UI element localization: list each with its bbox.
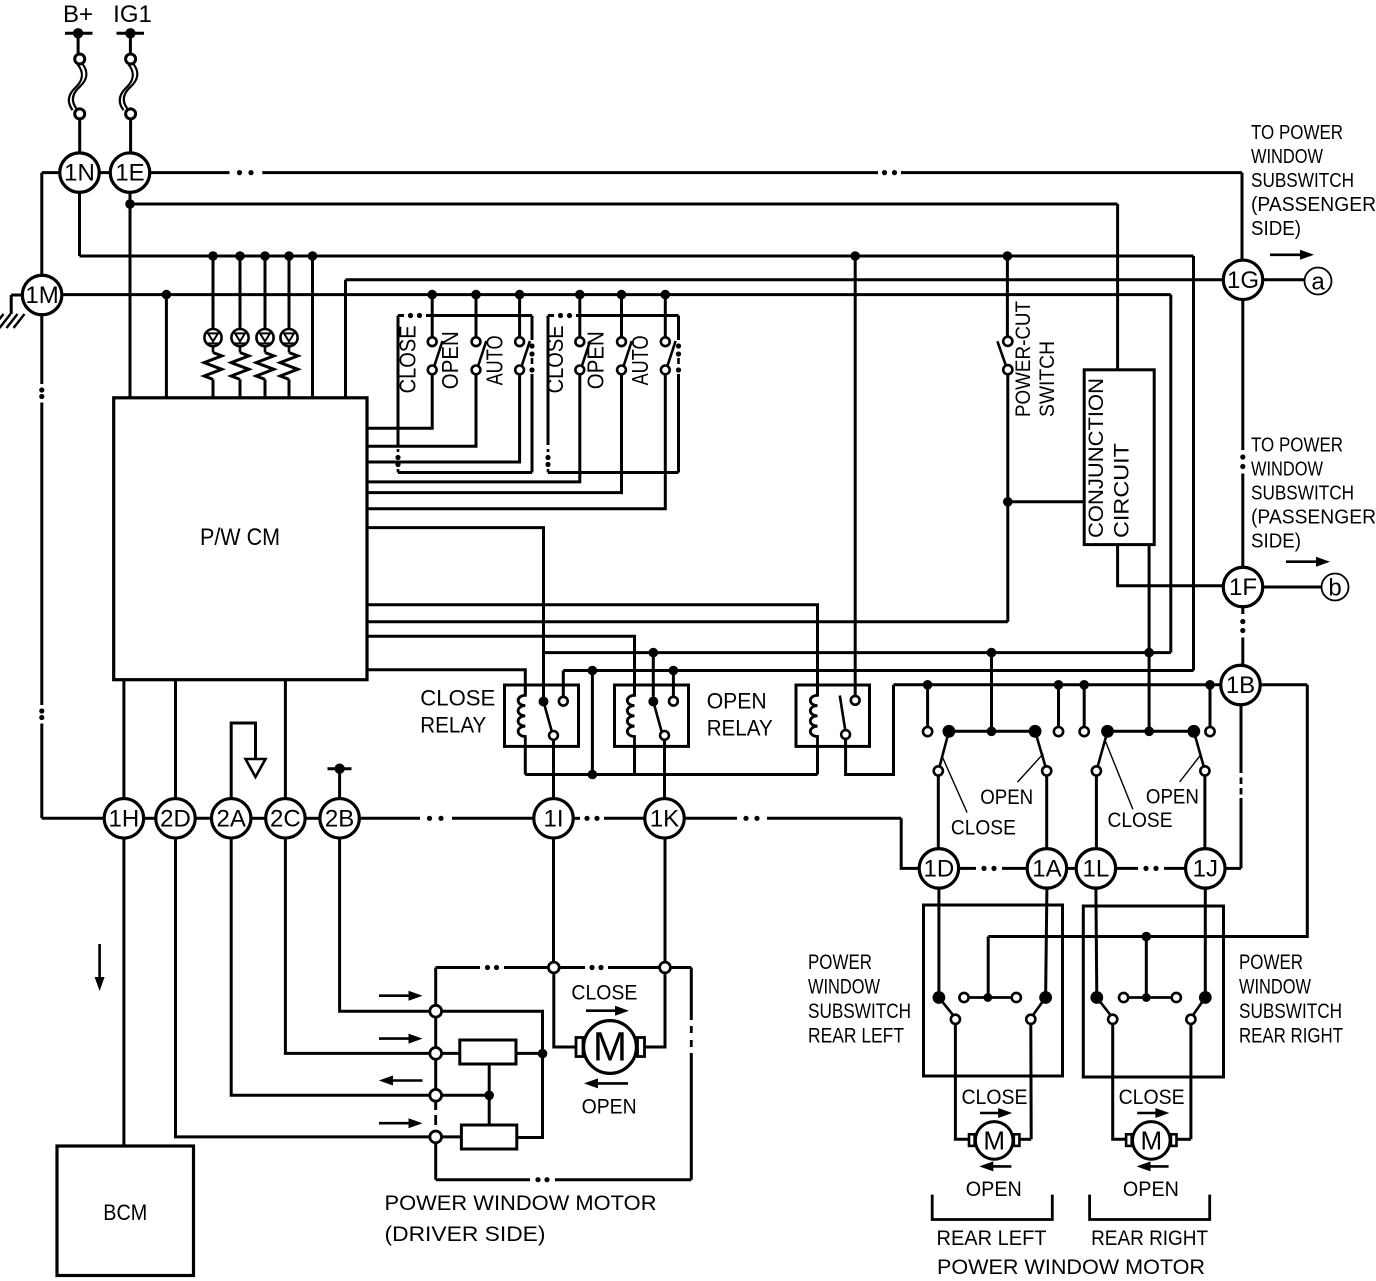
pin4 wire to rect2 [442, 1135, 462, 1138]
svg-text:OPEN: OPEN [980, 786, 1033, 809]
svg-text:POWER WINDOW MOTOR: POWER WINDOW MOTOR [385, 1192, 657, 1215]
junction ground rail / P-W CM pin [162, 290, 172, 300]
svg-text:1A: 1A [1032, 855, 1061, 882]
connector 2B [320, 799, 360, 839]
blade close (rear-right) [1098, 731, 1108, 766]
pin wire y=604.7 to relay3 coil [367, 605, 818, 696]
blade open (rear-right) [1194, 731, 1204, 766]
junction ground rail / switch x=476 [471, 290, 481, 300]
switch group 2 box (dash-dot portions) [548, 314, 554, 317]
relay3 output to 1B rail [846, 685, 894, 775]
relay1 common contact [539, 697, 549, 707]
svg-text:M: M [593, 1024, 627, 1070]
relay3 (rear power) box [796, 685, 870, 746]
pointer OPEN (rear-right) [1180, 755, 1201, 782]
junction ground rail / switch x=665.3 [661, 290, 671, 300]
power-cut switch [1006, 256, 1009, 337]
svg-text:REAR RIGHT: REAR RIGHT [1239, 1025, 1343, 1048]
rect1-rect2 vertical [488, 1064, 491, 1125]
rear-right motor wires [1113, 1024, 1126, 1139]
arrow close (rear-left) [980, 1112, 1001, 1115]
svg-text:REAR LEFT: REAR LEFT [937, 1227, 1047, 1250]
arrow in pin2 [379, 1037, 412, 1040]
wire 1M to 1H (chain) [40, 315, 43, 384]
pivot close (rear-right pair) [1101, 725, 1114, 738]
pivot close (rear-left pair) [943, 725, 956, 738]
junction power-cut / conjunction input [1003, 497, 1013, 507]
row wire 1I to 1K (chain) [573, 817, 580, 820]
ground wire from 1M [11, 294, 22, 297]
svg-text:CLOSE: CLOSE [951, 817, 1016, 840]
wire to conjunction circuit (y=204) [130, 203, 1118, 206]
svg-text:2A: 2A [217, 805, 246, 832]
row wire 2B to 1I (chain) [359, 817, 420, 820]
resistor R at x=213 [212, 346, 215, 352]
wire P/W CM to 1H [122, 680, 125, 799]
relay3 coil bottom [816, 746, 819, 774]
svg-text:b: b [1328, 575, 1341, 602]
IG1 rail to 1G [150, 171, 230, 174]
motor M rear left [969, 1134, 975, 1146]
motor box pin from 2D [430, 1131, 442, 1143]
svg-text:2D: 2D [160, 805, 191, 832]
arrow to passenger side (mid) [1286, 560, 1319, 563]
svg-text:1L: 1L [1083, 855, 1110, 882]
relay3 NO contact [851, 696, 860, 705]
rear-right pivot close [1090, 991, 1103, 1004]
motor left wire [554, 973, 576, 1047]
pin3 wire [442, 1094, 490, 1097]
connector 1D [919, 849, 959, 889]
svg-text:OPEN: OPEN [1146, 786, 1199, 809]
svg-text:OPEN: OPEN [707, 689, 767, 714]
svg-text:SUBSWITCH: SUBSWITCH [1239, 1000, 1342, 1023]
junction 1E / conjunction line [125, 199, 135, 209]
wire 1J into box [1204, 888, 1207, 997]
svg-text:1I: 1I [543, 805, 563, 832]
svg-text:TO POWER: TO POWER [1251, 435, 1343, 457]
pointer CLOSE (rear-left) [942, 756, 967, 813]
wire P/W CM to 2D [174, 680, 177, 799]
wire AUTO2 to P/W CM [367, 375, 665, 509]
arrow open (rear-left) [990, 1165, 1011, 1168]
wire to 1A [1045, 776, 1048, 849]
jog symbol above 2A [231, 723, 255, 799]
svg-text:RELAY: RELAY [707, 716, 773, 741]
pin wire y=527.6 to relay1 common [367, 528, 544, 702]
LED D at x=240 [239, 256, 242, 329]
svg-text:(DRIVER SIDE): (DRIVER SIDE) [385, 1223, 546, 1246]
svg-text:OPEN: OPEN [437, 331, 463, 389]
connector 2C [266, 799, 306, 839]
wire rail to relay2 common [652, 653, 655, 697]
wire OPEN2 to P/W CM [367, 375, 622, 493]
rear-left pivot open [1039, 991, 1052, 1004]
pin wire y=669.8 to relay1 coil [367, 670, 525, 696]
LED D at x=289 [288, 256, 291, 329]
relay3 coil [810, 685, 817, 746]
svg-text:SIDE): SIDE) [1251, 531, 1301, 553]
driver motor M [576, 1038, 583, 1057]
svg-text:SWITCH: SWITCH [1036, 341, 1059, 417]
T-bar terminal above 2B [328, 767, 352, 770]
pointer CLOSE (rear-right) [1106, 741, 1133, 809]
motor box contact from 1K [660, 962, 671, 973]
relay1 coil bottom [524, 746, 527, 774]
junction B+ / relay3 contact [850, 251, 860, 261]
motor box pin from 2C [430, 1048, 442, 1060]
wire to conjunction left [1008, 500, 1084, 503]
junction segB / coil-supply riser [588, 666, 598, 676]
svg-text:OPEN: OPEN [966, 1178, 1022, 1201]
wire B+ to relay3 NO [854, 256, 857, 696]
svg-text:CLOSE: CLOSE [1108, 809, 1173, 832]
wire B+ tap to P/W CM [311, 256, 314, 398]
bracket rear-right [1090, 1195, 1210, 1220]
ground riser to relay common rail [1169, 295, 1172, 653]
relay1 switch output contact [549, 731, 558, 740]
conjunction output to rear pair rail [1148, 545, 1151, 653]
conjunction circuit box [1084, 370, 1154, 545]
switch OPEN group at x=621.5 [620, 295, 623, 338]
rear-left blade close [939, 998, 954, 1016]
rear-right pivot open [1199, 991, 1212, 1004]
motor box pin from 2B [430, 1005, 442, 1017]
svg-text:1G: 1G [1227, 267, 1259, 294]
B+ riser right to relay contacts [1192, 256, 1195, 671]
blade open (rear-left) [1035, 731, 1045, 766]
blade close (rear-left) [940, 731, 949, 766]
svg-text:SIDE): SIDE) [1251, 218, 1301, 240]
circle a [1305, 268, 1332, 295]
svg-text:CLOSE: CLOSE [542, 325, 568, 393]
rear-left motor wires [955, 1024, 969, 1139]
bracket rear-left [932, 1195, 1052, 1220]
svg-text:CLOSE: CLOSE [571, 982, 637, 1005]
wire 1E to P/W CM [129, 192, 132, 397]
svg-text:AUTO: AUTO [482, 335, 508, 385]
junction segB / relay2 NO [669, 666, 679, 676]
1B wire down right side [988, 685, 1307, 937]
wire 2B to motor pin1 [340, 838, 430, 1011]
relay2 switch output contact [660, 731, 669, 740]
wire 1G line tap to P/W CM [344, 280, 347, 398]
wire 1D into box [937, 888, 940, 997]
svg-text:1F: 1F [1229, 574, 1257, 601]
connector 2A [211, 799, 251, 839]
motor M rear right [1126, 1134, 1132, 1146]
svg-text:OPEN: OPEN [582, 331, 608, 389]
stub 1B rail to pair contacts [926, 685, 929, 727]
wire 2A to motor pin3 [231, 838, 430, 1095]
rect1 right to junction [516, 1052, 543, 1055]
connector 1G [1223, 260, 1263, 300]
box P/W CM [114, 398, 367, 680]
ground symbol [14, 314, 25, 328]
svg-text:WINDOW: WINDOW [1251, 459, 1323, 481]
motor box contact from 1I [548, 962, 559, 973]
arrow to passenger side (top) [1270, 254, 1303, 257]
pin wire y=621.7 to power-cut [367, 620, 1008, 623]
connector 2D [156, 799, 196, 839]
rear-left blade open [1033, 998, 1046, 1016]
wire 1A into box [1046, 888, 1047, 997]
connector 1J [1186, 849, 1226, 889]
rear-right pair: center feed [1148, 653, 1151, 732]
wire 2D to motor pin4 [176, 838, 430, 1137]
svg-text:SUBSWITCH: SUBSWITCH [1251, 483, 1354, 505]
relay OPEN relay (middle) box [615, 685, 689, 746]
wire 1N to B+ rail [78, 192, 81, 256]
box POWER WINDOW MOTOR DRIVER SIDE (chain border) [436, 966, 480, 969]
wire P/W CM to 2C [284, 680, 287, 799]
riser segB to coil rail [591, 671, 594, 775]
wire 1G to a [1263, 278, 1305, 281]
svg-text:OPEN: OPEN [582, 1096, 637, 1119]
resistor R at x=240 [239, 346, 242, 352]
svg-text:CONJUNCTION: CONJUNCTION [1085, 378, 1108, 538]
chain 1D-1A [959, 867, 976, 870]
wire 1N-1E [99, 171, 110, 174]
wire P/W CM pin x=166.4 [165, 295, 168, 398]
arrow in pin1 [379, 994, 412, 997]
svg-text:CLOSE: CLOSE [394, 325, 420, 393]
row wire segments between connectors [144, 817, 156, 820]
wire CLOSE2 to P/W CM [367, 375, 580, 482]
rear-left pair: center feed [990, 653, 993, 732]
rear-right pair bar [1108, 730, 1194, 733]
relay common / ground rail y=652.6 [544, 651, 1171, 654]
switch AUTO group at x=665.3 [664, 295, 667, 338]
1B rail y=684.8 [894, 683, 1221, 686]
svg-text:CLOSE: CLOSE [420, 686, 495, 711]
relay2 blade [653, 702, 661, 732]
svg-text:(PASSENGER: (PASSENGER [1251, 194, 1376, 216]
svg-text:1M: 1M [25, 282, 58, 309]
pivot open (rear-left pair) [1029, 725, 1042, 738]
connector 1M [22, 275, 62, 315]
connector 1I [534, 799, 574, 839]
rear-right blade close [1097, 998, 1111, 1016]
svg-text:AUTO: AUTO [627, 335, 653, 385]
motor box pin from 2A [430, 1089, 442, 1101]
svg-text:M: M [983, 1126, 1005, 1156]
connector 1N [60, 153, 100, 193]
relay2 coil [627, 685, 634, 746]
svg-text:RELAY: RELAY [420, 713, 486, 738]
svg-text:a: a [1311, 269, 1325, 296]
svg-text:B+: B+ [63, 1, 93, 28]
chain 1L-1J [1116, 867, 1138, 870]
connector 1F [1223, 567, 1263, 607]
rect1 left to pin2 [442, 1052, 460, 1055]
segment B+ to relay NO contacts y=670.5 [563, 669, 1193, 672]
svg-text:WINDOW: WINDOW [1239, 976, 1311, 999]
rear-left pivot close [933, 991, 946, 1004]
wire AUTO1 to P/W CM [367, 375, 520, 463]
connector 1K [645, 799, 685, 839]
chain 1F to 1B [1241, 607, 1244, 614]
wire 1N left / down to 1M [42, 171, 60, 174]
breaker rect 1 [460, 1040, 516, 1064]
svg-text:1E: 1E [115, 160, 144, 187]
B+ rail [80, 255, 1194, 258]
svg-text:WINDOW: WINDOW [808, 976, 880, 999]
switch CLOSE group at x=579.8 [578, 295, 581, 338]
junction B+ / power-cut switch [1003, 251, 1013, 261]
svg-text:2B: 2B [325, 805, 354, 832]
wire 1J to 1B riser (chain) [1225, 867, 1241, 870]
junction rail/rear-right pair center [1144, 648, 1154, 658]
ground rail from 1M [62, 293, 1171, 296]
wire 1H to BCM [122, 838, 125, 1146]
arrow in pin4 [379, 1122, 412, 1125]
fuse F1 (B+) [65, 32, 93, 35]
conjunction output to 1F [1118, 545, 1224, 586]
connector 1A [1027, 849, 1067, 889]
svg-text:1B: 1B [1226, 672, 1255, 699]
junction ground rail / switch x=579.8 [575, 290, 585, 300]
svg-text:SUBSWITCH: SUBSWITCH [1251, 170, 1354, 192]
connector 1B [1221, 665, 1261, 705]
arrow out pin3 [390, 1079, 423, 1082]
wire 1A-1L [1067, 867, 1076, 870]
svg-text:POWER: POWER [1239, 951, 1303, 974]
coil supply rail y=774.5 [525, 773, 817, 776]
svg-text:SUBSWITCH: SUBSWITCH [808, 1000, 911, 1023]
box POWER WINDOW SUBSWITCH REAR LEFT [924, 905, 1063, 1076]
switch group 1 box (dash-dot portions) [398, 314, 404, 317]
box POWER WINDOW SUBSWITCH REAR RIGHT [1083, 906, 1223, 1077]
pin wire y=636.3 to relay2 coil [367, 636, 635, 695]
svg-text:2C: 2C [270, 805, 301, 832]
chain 1G to 1F [1241, 300, 1244, 450]
svg-text:1J: 1J [1193, 855, 1218, 882]
wire to 1L [1095, 776, 1098, 849]
junction B+ rail x=213 [208, 251, 218, 261]
junction B+ rail x=240 [235, 251, 245, 261]
rear-left feed from 1B line [987, 937, 990, 998]
svg-text:1N: 1N [64, 160, 95, 187]
junction B+ rail x=265 [260, 251, 270, 261]
connector 1E [110, 153, 150, 193]
svg-text:BCM: BCM [103, 1200, 147, 1225]
junction ground rail / switch x=621.5 [617, 290, 627, 300]
svg-text:P/W CM: P/W CM [200, 524, 280, 551]
rear-left center bar [959, 993, 968, 1002]
rear-right center bar [1119, 993, 1128, 1002]
wire 2C to motor pin2 [285, 838, 429, 1053]
junction rail/relay2 common [649, 648, 659, 658]
wire OPEN1 to P/W CM [367, 375, 476, 447]
arrow open (rear-right) [1148, 1165, 1169, 1168]
svg-text:(PASSENGER: (PASSENGER [1251, 507, 1376, 529]
junction B+ rail x=289 [284, 251, 294, 261]
circle b [1322, 574, 1349, 601]
arrow close (driver) [586, 1009, 618, 1012]
motor right wire [645, 973, 666, 1047]
svg-text:IG1: IG1 [113, 1, 152, 28]
wire relay2 to 1K [663, 740, 666, 799]
junction rect1 output [538, 1049, 548, 1059]
row wire 1K to 1D (chain) [684, 817, 737, 820]
wire 1L into box [1094, 888, 1098, 997]
svg-text:REAR LEFT: REAR LEFT [808, 1025, 904, 1048]
svg-text:CLOSE: CLOSE [1119, 1086, 1185, 1109]
arrow close (rear-right) [1137, 1112, 1158, 1115]
svg-text:POWER WINDOW MOTOR: POWER WINDOW MOTOR [937, 1256, 1205, 1279]
svg-text:POWER: POWER [808, 951, 872, 974]
svg-text:WINDOW: WINDOW [1251, 146, 1323, 168]
wire relay1 to 1I [552, 740, 555, 799]
relay2 coil bottom [633, 746, 636, 774]
resistor R at x=289 [288, 346, 291, 352]
svg-text:1D: 1D [924, 855, 955, 882]
relay1 coil [518, 685, 525, 746]
junction rail/rear-left pair center [987, 648, 997, 658]
wire to 1D [937, 776, 940, 849]
junction ground rail / switch x=432.2 [427, 290, 437, 300]
wire 1K to driver motor [664, 838, 667, 961]
svg-text:REAR RIGHT: REAR RIGHT [1091, 1227, 1208, 1250]
wire CLOSE1 to P/W CM [367, 375, 432, 429]
arrow open (driver) [595, 1082, 628, 1085]
svg-text:OPEN: OPEN [1123, 1178, 1179, 1201]
connector 1L [1076, 849, 1116, 889]
relay2 common contact [648, 697, 658, 707]
rear-right blade open [1193, 998, 1206, 1016]
LED D at x=213 [212, 256, 215, 329]
wire 1I to driver motor [552, 838, 555, 961]
resistor R at x=265 [264, 346, 267, 352]
svg-text:1K: 1K [650, 805, 679, 832]
fuse F2 (IG1) [117, 32, 145, 35]
svg-text:CIRCUIT: CIRCUIT [1111, 443, 1134, 538]
breaker rect 2 [461, 1125, 516, 1149]
relay2 NO contact [669, 697, 678, 706]
svg-text:CLOSE: CLOSE [962, 1086, 1028, 1109]
svg-text:POWER-CUT: POWER-CUT [1012, 301, 1035, 417]
relay CLOSE RELAY box [505, 685, 579, 746]
relay1 blade [544, 702, 552, 732]
wire to 1J [1203, 776, 1206, 849]
relay3 blade [840, 696, 845, 730]
connector 1H [104, 799, 143, 839]
rear-left pair bar [949, 730, 1035, 733]
arrow down to BCM [98, 944, 101, 977]
LED D at x=265 [264, 256, 267, 329]
svg-text:M: M [1140, 1126, 1162, 1156]
pointer OPEN (rear-left) [1018, 754, 1044, 782]
junction ground rail / switch x=519.6 [515, 290, 525, 300]
svg-text:1H: 1H [109, 805, 140, 832]
junction pin3 [484, 1091, 494, 1101]
svg-text:TO POWER: TO POWER [1251, 122, 1343, 144]
1G feed line y=279.8 [346, 278, 1224, 281]
box BCM [57, 1146, 194, 1276]
wiring pin1 to rects [442, 1011, 543, 1137]
pivot open (rear-right pair) [1187, 725, 1200, 738]
relay3 switch output contact [841, 730, 850, 739]
switch AUTO group at x=519.6 [518, 295, 521, 338]
relay1 NO contact [559, 697, 568, 706]
junction B+ rail x=312.5 [308, 251, 318, 261]
wire 1F to b [1263, 586, 1321, 589]
switch OPEN group at x=476 [475, 295, 478, 338]
switch CLOSE group at x=432.2 [431, 295, 434, 338]
rear-right feed from 1B line [1145, 937, 1148, 998]
